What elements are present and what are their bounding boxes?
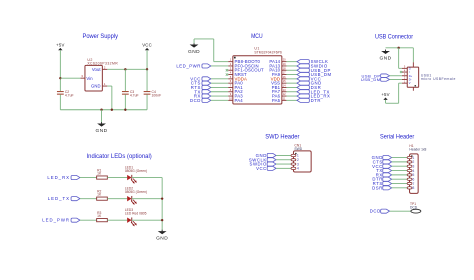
svg-text:DSR: DSR — [372, 185, 383, 190]
net label CTS (serial) — [373, 159, 392, 164]
U1 right pin 12 (PA6) — [272, 92, 287, 98]
label U1 — [254, 47, 259, 51]
LED LED2 — [127, 196, 137, 205]
H1 pin 4 — [407, 169, 414, 173]
wire pin to DTR — [286, 99, 297, 101]
svg-text:LED_TX: LED_TX — [48, 196, 70, 201]
svg-text:100nF: 100nF — [152, 94, 162, 98]
net label LED_TX (MCU right) — [297, 89, 330, 94]
net label DSR (serial) — [372, 185, 392, 190]
svg-text:19: 19 — [283, 62, 286, 66]
capacitor C2 top lead — [59, 91, 61, 93]
wire pin to USB_DP — [286, 69, 297, 71]
svg-text:+5V: +5V — [56, 42, 64, 47]
net label LED_PWR (MCU) — [176, 64, 211, 69]
svg-text:17: 17 — [283, 71, 286, 75]
wire GND stem — [101, 110, 103, 123]
pin stub U2 pin3 — [81, 77, 85, 79]
svg-text:VCC: VCC — [142, 42, 152, 47]
pin stub U2 pin2 — [102, 68, 107, 70]
label USB1 — [421, 74, 432, 78]
svg-text:3: 3 — [230, 66, 232, 70]
wire gnd to pin5 vertical — [398, 48, 400, 69]
U1 right pin 13 (PA7) — [272, 88, 287, 94]
wire LED_PWR to pin — [211, 65, 228, 67]
net label USB_DM (MCU right) — [297, 72, 332, 77]
section title: Power Supply — [83, 33, 119, 40]
net label SWCLK (SWD) — [249, 157, 276, 162]
wire U2 GND down — [111, 86, 113, 110]
capacitor C3 plates — [122, 92, 129, 95]
svg-text:18: 18 — [283, 66, 286, 70]
label C3 — [130, 90, 134, 94]
LED LED3 — [127, 217, 137, 226]
header H1 body — [410, 154, 419, 194]
H1 pin 8 — [407, 186, 414, 190]
wire RTS to H1 — [392, 183, 408, 185]
U1 right pin 18 (PA10) — [269, 66, 286, 72]
net label DTR (MCU right) — [297, 98, 321, 103]
wire C4 bottom — [146, 95, 148, 110]
net label USB_DM — [361, 77, 390, 82]
svg-text:7: 7 — [230, 84, 232, 88]
wire VCC to CN1 — [276, 167, 292, 169]
svg-text:D+: D+ — [409, 74, 413, 78]
svg-text:13: 13 — [283, 88, 286, 92]
svg-text:11: 11 — [283, 96, 286, 100]
value LED Red 0805 — [125, 212, 147, 216]
wire R3 to LED3 — [107, 219, 127, 221]
net label LED_RX — [47, 175, 80, 180]
label LED3 — [125, 208, 133, 212]
svg-text:15: 15 — [283, 79, 286, 83]
net label RX (MCU left) — [194, 94, 211, 99]
net label GND (serial) — [372, 155, 392, 160]
wire SWDIO to CN1 — [276, 163, 292, 165]
no-connect PF1-OSCOUT — [226, 69, 228, 71]
svg-text:2: 2 — [104, 65, 106, 69]
wire LED1 to rail — [132, 177, 162, 179]
CN1 pin 1 — [291, 154, 299, 158]
value 0805G (Green) — [125, 190, 147, 194]
pin-1 marker (H1) — [411, 155, 413, 157]
value Header 1x8 — [409, 148, 426, 152]
U1 left pin 1 (PB8-BOOT0) — [228, 58, 260, 64]
wire LED_PWR to R3 — [80, 219, 97, 221]
junction Vout/C4/VCC — [146, 68, 148, 70]
label LED2 — [125, 187, 133, 191]
U1 right pin 20 (PA14) — [269, 58, 286, 64]
wire VCC vertical — [146, 50, 148, 69]
net label TX (serial) — [376, 168, 391, 173]
svg-text:Power Supply: Power Supply — [83, 33, 119, 40]
wire C4 top — [146, 69, 148, 91]
label C2 — [65, 90, 69, 94]
net label LED_RX (MCU right) — [297, 94, 330, 99]
wire TX to H1 — [392, 170, 408, 172]
USB pin 2 stub — [402, 77, 412, 82]
USB pin 3 stub — [402, 73, 413, 78]
pin stub U2 pin1 — [102, 85, 107, 87]
wire CTS to H1 — [392, 161, 408, 163]
U1 right pin 16 (VDD) — [271, 75, 287, 81]
U1 left pin 7 (PA1) — [228, 84, 243, 90]
wire SWCLK to CN1 — [276, 159, 292, 161]
net label TX (MCU left) — [194, 89, 210, 94]
svg-text:MCU: MCU — [251, 33, 263, 40]
supply VCC symbol — [142, 42, 152, 50]
svg-text:14: 14 — [283, 84, 286, 88]
svg-text:USB_DM: USB_DM — [361, 77, 381, 82]
net label CTS (MCU left) — [191, 81, 211, 86]
value XC6206P332MR — [87, 62, 118, 66]
wire USB gnd top — [386, 47, 414, 49]
USB pin 1 stub — [402, 80, 411, 85]
U1 left pin 9 (PA3) — [228, 92, 243, 98]
wire TX to pin — [211, 91, 228, 93]
wire C2 bottom — [59, 95, 61, 110]
svg-text:4: 4 — [230, 71, 232, 75]
junction Vout/C3 — [124, 68, 126, 70]
section title: Serial Header — [380, 134, 415, 141]
junction rail/LED2 — [161, 197, 163, 199]
svg-text:DCD: DCD — [190, 98, 201, 103]
svg-text:LED Red 0805: LED Red 0805 — [125, 212, 147, 216]
label R2 — [97, 189, 101, 193]
value 1K (R1) — [97, 172, 102, 176]
svg-text:8: 8 — [412, 186, 414, 190]
ground symbol (LEDs) — [156, 230, 168, 242]
U1 left pin 4 (NRST) — [228, 71, 247, 77]
svg-text:GND: GND — [188, 49, 200, 55]
svg-text:Serial Header: Serial Header — [380, 134, 415, 141]
svg-text:Indicator LEDs (optional): Indicator LEDs (optional) — [87, 153, 152, 160]
svg-text:Vout: Vout — [92, 67, 102, 72]
wire LED rail — [161, 178, 163, 231]
wire DTR to H1 — [392, 178, 408, 180]
U1 right pin 15 (VSS) — [271, 79, 286, 85]
net label LED_TX — [48, 196, 80, 201]
H1 pin 1 — [407, 156, 414, 160]
wire pin to SWDIO — [286, 65, 297, 67]
net label DTR (serial) — [372, 177, 391, 182]
wire pin to VCC — [286, 78, 297, 80]
net label RX (serial) — [376, 172, 392, 177]
svg-text:GND: GND — [156, 236, 168, 242]
net label LED_PWR — [42, 218, 80, 223]
svg-text:DCD: DCD — [370, 209, 381, 214]
label C4 — [152, 90, 156, 94]
CN1 pin 4 — [291, 167, 299, 171]
svg-text:4.7uF: 4.7uF — [65, 94, 74, 98]
U1 right pin 19 (PA13) — [269, 62, 286, 68]
wire BOOT0-gnd stem — [193, 39, 195, 43]
value 1K (R3) — [97, 214, 102, 218]
H1 pin 7 — [407, 182, 414, 186]
wire Vout to VCC — [107, 68, 147, 70]
svg-text:20: 20 — [283, 58, 286, 62]
svg-text:LED_RX: LED_RX — [47, 175, 70, 180]
wire BOOT0 horizontal — [194, 38, 214, 40]
svg-text:Header 1x8: Header 1x8 — [409, 148, 426, 152]
H1 pin 6 — [407, 178, 414, 182]
MCU U1 body — [233, 56, 282, 104]
capacitor C4 plates — [144, 92, 151, 95]
value SWD — [294, 147, 302, 151]
pin name GND (U2) — [91, 84, 101, 89]
section title: Indicator LEDs (optional) — [87, 153, 152, 160]
USB connector USB1 body — [407, 67, 418, 87]
U1 left pin 10 (PA4) — [228, 96, 243, 102]
wire gnd to pin5 — [399, 67, 402, 69]
svg-text:USB Connector: USB Connector — [375, 34, 414, 41]
CN1 pin 3 — [291, 162, 299, 166]
net label VCC (SWD) — [256, 166, 276, 171]
label LED1 — [125, 166, 133, 170]
net label RTS (MCU left) — [191, 85, 211, 90]
wire +5V vertical upper — [59, 50, 61, 91]
wire VCC to pin — [211, 78, 228, 80]
value 100nF — [152, 94, 162, 98]
svg-text:+5V: +5V — [381, 92, 389, 97]
svg-text:1: 1 — [230, 58, 232, 62]
svg-text:16: 16 — [283, 75, 286, 79]
net label USB_DP (MCU right) — [297, 68, 331, 73]
capacitor C2 plates — [57, 92, 64, 95]
wire +5V to VBUS — [399, 82, 402, 84]
voltage regulator U2 body — [85, 65, 102, 91]
svg-text:10: 10 — [229, 96, 232, 100]
junction rail/U2-GND — [111, 109, 113, 111]
svg-text:8: 8 — [230, 88, 232, 92]
U1 left pin 3 (PF1-OSCOUT) — [228, 66, 264, 72]
label CN1 — [294, 144, 301, 148]
CN1 pin 2 — [291, 158, 299, 162]
value micro USBFemale — [421, 77, 456, 81]
svg-text:4.7uF: 4.7uF — [130, 94, 139, 98]
net label GND (MCU right) — [297, 81, 322, 86]
U1 right pin 11 (PA5) — [272, 96, 287, 102]
svg-text:12: 12 — [283, 92, 286, 96]
svg-text:G: G — [409, 66, 411, 70]
net label DSR (MCU right) — [297, 85, 321, 90]
test point TP1 — [411, 209, 421, 213]
label R3 — [97, 211, 101, 215]
wire pin to SWCLK — [286, 61, 297, 63]
pin number 3 — [81, 74, 83, 78]
H1 pin 2 — [407, 160, 414, 164]
svg-text:STM32F042F6P6: STM32F042F6P6 — [254, 51, 282, 55]
section title: MCU — [251, 33, 263, 40]
label R1 — [97, 168, 101, 172]
no-connect USB ID pin — [400, 71, 402, 73]
wire LED_RX to R1 — [80, 177, 97, 179]
pin name Vin — [86, 76, 93, 81]
wire DCD to pin — [211, 99, 228, 101]
svg-text:DCD: DCD — [410, 205, 418, 209]
svg-text:3: 3 — [81, 74, 83, 78]
net label SWDIO (MCU right) — [297, 64, 328, 69]
wire RTS to pin — [211, 86, 228, 88]
resistor R1 body — [97, 176, 108, 179]
svg-text:micro USBFemale: micro USBFemale — [421, 77, 456, 81]
svg-text:PA4: PA4 — [235, 98, 244, 103]
label H1 — [409, 144, 413, 148]
junction USB gnd — [397, 47, 399, 49]
wire RX to pin — [211, 95, 228, 97]
svg-text:LED_PWR: LED_PWR — [42, 218, 70, 223]
value 4.7uF (C3) — [130, 94, 139, 98]
net label DCD (MCU left) — [190, 98, 211, 103]
U1 left pin 5 (VDDA) — [228, 75, 247, 81]
value STM32F042F6P6 — [254, 51, 282, 55]
wire pin to GND — [286, 82, 297, 84]
wire RX to H1 — [392, 174, 408, 176]
svg-text:1: 1 — [104, 82, 106, 86]
wire R1 to LED1 — [107, 177, 127, 179]
supply +5V symbol (USB) — [381, 92, 389, 100]
net label VCC (serial) — [372, 164, 392, 169]
svg-text:VCC: VCC — [256, 166, 267, 171]
wire LED2 to rail — [132, 198, 162, 200]
wire DCD to TP1 — [390, 210, 411, 212]
svg-text:GND: GND — [91, 84, 101, 89]
junction +5V/Vin — [59, 77, 61, 79]
wire +5V vertical (USB) — [398, 83, 400, 103]
wire USB_DM — [390, 78, 402, 80]
svg-text:4: 4 — [297, 167, 299, 171]
header CN1 body — [293, 151, 311, 172]
svg-text:2: 2 — [230, 62, 232, 66]
net label SWDIO (SWD) — [250, 162, 277, 167]
wire +5V stem (USB) — [385, 100, 387, 103]
pin marker (USB1) — [414, 85, 416, 87]
label TP1 — [410, 202, 416, 206]
wire LED3 to rail — [132, 219, 162, 221]
resistor R3 body — [97, 219, 108, 222]
wire R2 to LED2 — [107, 198, 127, 200]
section title: USB Connector — [375, 34, 414, 41]
svg-text:SWD Header: SWD Header — [265, 134, 300, 141]
ground symbol (BOOT0) — [188, 43, 200, 55]
net label USB_DP — [362, 73, 390, 78]
ground symbol (power supply) — [96, 122, 108, 134]
wire LED_TX to R2 — [80, 198, 97, 200]
junction rail/LED3 — [161, 219, 163, 221]
svg-text:6: 6 — [230, 79, 232, 83]
USB pin 5 stub — [402, 66, 411, 71]
value 1K (R2) — [97, 193, 102, 197]
net label VCC (MCU left) — [190, 76, 211, 81]
svg-text:5: 5 — [230, 75, 232, 79]
svg-text:0805G (Green): 0805G (Green) — [125, 190, 147, 194]
pin stub shield bottom — [412, 87, 414, 91]
U1 right pin 17 (PA9) — [272, 71, 287, 77]
svg-text:LED_PWR: LED_PWR — [176, 64, 201, 69]
pin stub shield top — [412, 62, 414, 67]
svg-text:9: 9 — [230, 92, 232, 96]
wire VCC to H1 — [392, 165, 408, 167]
wire pin to DSR — [286, 86, 297, 88]
svg-text:GND: GND — [96, 128, 108, 134]
net label DCD — [370, 209, 390, 214]
pin number 1 — [104, 82, 106, 86]
net label RTS (serial) — [373, 181, 392, 186]
resistor R2 body — [97, 197, 108, 200]
pin number 2 — [104, 65, 106, 69]
wire shield vertical — [412, 48, 414, 62]
value DCD (TP1) — [410, 205, 418, 209]
value 0805G (Green) — [125, 169, 147, 173]
H1 pin 5 — [407, 173, 414, 177]
svg-text:D-: D- — [409, 78, 412, 82]
junction rail/GND-symbol — [100, 109, 102, 111]
pin-1 marker (U1) — [234, 57, 236, 59]
U1 left pin 6 (PA0) — [228, 79, 243, 85]
wire BOOT0 vertical — [213, 39, 215, 62]
wire +5V bottom (USB) — [386, 102, 399, 104]
wire GND to H1 — [392, 157, 408, 159]
supply +5V symbol — [56, 42, 64, 50]
net label VCC (MCU right) — [297, 76, 321, 81]
U1 left pin 2 (PF0-OSCIN) — [228, 62, 259, 68]
label U2 — [87, 58, 92, 62]
wire ground rail — [60, 109, 147, 111]
svg-text:Vin: Vin — [86, 76, 93, 81]
U1 right pin 14 (PB1) — [272, 84, 287, 90]
svg-text:PA5: PA5 — [272, 98, 281, 103]
U1 left pin 8 (PA2) — [228, 88, 243, 94]
wire C3 bottom — [124, 95, 126, 110]
H1 pin 3 — [407, 165, 414, 169]
value 4.7uF (C2) — [65, 94, 74, 98]
wire GND to CN1 — [276, 154, 292, 156]
svg-text:V: V — [409, 81, 411, 85]
no-connect NRST — [226, 73, 228, 75]
wire USB_DP — [390, 75, 402, 77]
wire pin to LED_TX — [286, 91, 297, 93]
pin-1 marker (CN1) — [295, 153, 297, 155]
junction rail/C3 — [124, 109, 126, 111]
wire pin to USB_DM — [286, 74, 297, 76]
svg-text:GND: GND — [380, 55, 392, 61]
LED LED1 — [127, 175, 137, 184]
svg-text:DTR: DTR — [311, 98, 321, 103]
net label GND (SWD) — [256, 153, 276, 158]
net label SWCLK (MCU right) — [297, 59, 328, 64]
wire U2 GND right — [107, 85, 112, 87]
wire C3 top — [124, 69, 126, 91]
pin name Vout — [92, 67, 102, 72]
wire BOOT0 to pin — [214, 61, 229, 63]
svg-text:0805G (Green): 0805G (Green) — [125, 169, 147, 173]
wire Vin branch — [60, 77, 80, 79]
USB pin 4 stub — [402, 69, 410, 74]
wire pin to LED_RX — [286, 95, 297, 97]
ground symbol (USB) — [380, 50, 392, 62]
wire DSR to H1 — [392, 187, 408, 189]
wire CTS to pin — [211, 82, 228, 84]
section title: SWD Header — [265, 134, 300, 141]
